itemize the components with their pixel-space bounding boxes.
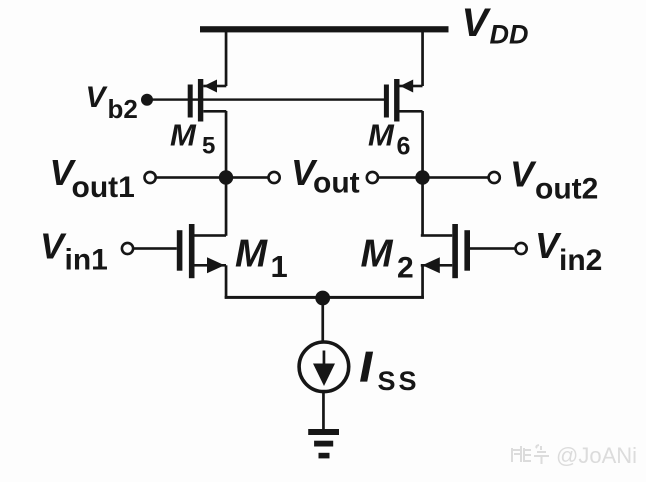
svg-text:V: V	[40, 225, 67, 266]
node tail junction	[315, 291, 330, 306]
svg-text:@JoANi: @JoANi	[556, 443, 637, 468]
svg-text:in1: in1	[65, 243, 108, 276]
svg-text:V: V	[462, 1, 492, 45]
current source ISS	[299, 342, 349, 392]
svg-text:1: 1	[271, 249, 288, 284]
ground	[308, 429, 339, 458]
svg-text:out: out	[313, 167, 360, 200]
Vin1 label	[40, 225, 108, 276]
svg-text:5: 5	[202, 132, 215, 159]
wire M2 source down	[421, 265, 424, 298]
node Vb2 dot	[141, 94, 153, 106]
svg-text:in2: in2	[559, 244, 602, 277]
svg-text:V: V	[510, 154, 537, 195]
wire node to Vout2 terminal	[423, 176, 489, 179]
wire M5 drain down to M1 drain (left column)	[225, 111, 228, 236]
wire Vb2 gate line (to M6 gate)	[147, 98, 385, 100]
wire M2 gate to Vin2	[470, 247, 516, 250]
svg-text:DD: DD	[490, 19, 529, 49]
terminal circle Vout left	[269, 172, 280, 183]
terminal circle Vin1	[122, 243, 133, 254]
wire M1 source down	[225, 265, 228, 298]
svg-text:out2: out2	[535, 173, 598, 206]
terminal circle Vout1	[145, 172, 156, 183]
M6 label	[368, 117, 410, 160]
M1 label	[235, 232, 288, 284]
svg-text:I: I	[360, 343, 373, 390]
svg-text:M: M	[361, 233, 394, 276]
Vb2 label	[86, 81, 138, 124]
wire rail to M5 source	[225, 29, 228, 86]
svg-text:M: M	[235, 232, 268, 275]
transistor M5 (PMOS)	[188, 79, 227, 122]
wire Vout1 to node	[156, 176, 226, 179]
watermark	[512, 445, 549, 464]
terminal circle Vout2	[489, 172, 500, 183]
terminal circle Vout right	[367, 172, 378, 183]
tail rail	[225, 296, 424, 299]
transistor M2 (NMOS)	[421, 224, 470, 278]
wire rail to M6 source	[421, 29, 424, 86]
svg-text:M: M	[368, 117, 395, 152]
transistor M1 (NMOS)	[177, 224, 226, 278]
node junction left output	[219, 170, 233, 184]
svg-text:V: V	[535, 225, 562, 266]
svg-text:b2: b2	[108, 94, 138, 124]
svg-text:M: M	[170, 117, 197, 152]
Vout1 label	[50, 152, 135, 204]
Vout2 label	[510, 154, 598, 206]
svg-text:V: V	[86, 81, 109, 114]
wire Vout right terminal to node	[378, 176, 423, 179]
wire current source to ground	[322, 392, 325, 430]
ISS label	[360, 343, 420, 396]
terminal circle Vin2	[516, 243, 527, 254]
wire Vin1 to M1 gate	[133, 247, 177, 250]
transistor M6 (PMOS)	[384, 79, 423, 122]
M2 label	[361, 233, 414, 285]
wire M6 drain down to M2 drain (right column)	[421, 111, 424, 236]
M5 label	[170, 117, 215, 159]
svg-text:out1: out1	[72, 171, 135, 204]
wire node to Vout left terminal	[226, 176, 269, 179]
svg-text:SS: SS	[378, 366, 420, 396]
VDD label	[462, 1, 529, 49]
svg-text:6: 6	[397, 133, 411, 161]
Vin2 label	[535, 225, 602, 277]
svg-text:2: 2	[397, 251, 414, 284]
VDD rail	[200, 26, 449, 32]
node junction right output	[415, 170, 429, 184]
wire tail to current source	[321, 298, 324, 341]
Vout label	[291, 152, 360, 200]
